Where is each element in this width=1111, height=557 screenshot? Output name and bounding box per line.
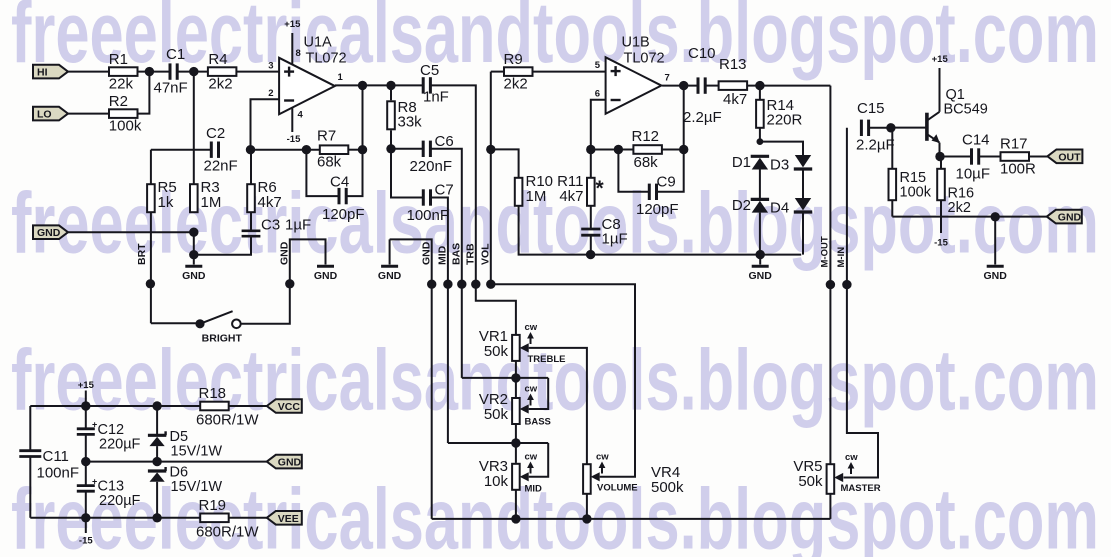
diode D1 bbox=[732, 154, 769, 171]
svg-text:TL072: TL072 bbox=[306, 51, 347, 67]
wire bbox=[68, 231, 194, 233]
svg-text:+15: +15 bbox=[932, 54, 949, 65]
wire bbox=[193, 232, 195, 264]
capacitor C11 bbox=[19, 448, 79, 482]
svg-text:68k: 68k bbox=[317, 154, 342, 171]
svg-text:VOLUME: VOLUME bbox=[597, 483, 638, 494]
diode D4 bbox=[770, 198, 812, 217]
resistor R7 bbox=[317, 128, 348, 171]
resistor R16 bbox=[937, 157, 974, 234]
svg-text:M-OUT: M-OUT bbox=[820, 236, 831, 267]
svg-text:220R: 220R bbox=[767, 112, 803, 129]
wire bbox=[68, 71, 109, 73]
svg-text:5: 5 bbox=[595, 60, 601, 71]
wire bbox=[683, 86, 685, 150]
svg-text:7: 7 bbox=[665, 72, 670, 83]
connector GND power bbox=[267, 455, 302, 469]
node M-OUT bbox=[826, 280, 835, 289]
svg-text:2k2: 2k2 bbox=[208, 76, 232, 93]
svg-text:GND: GND bbox=[984, 270, 1008, 282]
svg-text:4k7: 4k7 bbox=[723, 91, 747, 108]
wire bbox=[29, 406, 31, 450]
svg-text:6: 6 bbox=[595, 89, 600, 100]
ground bbox=[317, 265, 334, 268]
node mid D5 bbox=[152, 457, 161, 466]
node BRT bbox=[146, 279, 155, 288]
wire VR1 wiper to VR4 bbox=[529, 348, 587, 465]
svg-text:120pF: 120pF bbox=[636, 201, 679, 218]
svg-text:GND: GND bbox=[421, 241, 433, 265]
svg-text:2.2µF: 2.2µF bbox=[683, 109, 722, 126]
wire bbox=[747, 85, 830, 87]
node inverting U1A bbox=[246, 145, 255, 154]
node VR2 bottom bbox=[511, 438, 520, 447]
svg-text:15V/1W: 15V/1W bbox=[171, 444, 223, 460]
resistor R8 bbox=[387, 85, 422, 148]
wire bbox=[30, 405, 200, 407]
node switch gnd line bbox=[285, 279, 294, 288]
svg-text:33k: 33k bbox=[398, 114, 423, 131]
ground bbox=[185, 265, 202, 268]
wire bbox=[241, 239, 326, 323]
svg-text:C9: C9 bbox=[657, 174, 676, 191]
svg-text:500k: 500k bbox=[651, 479, 684, 496]
svg-text:C2: C2 bbox=[206, 125, 225, 142]
wire gnd mid rail bbox=[86, 461, 267, 463]
svg-text:50k: 50k bbox=[484, 343, 509, 360]
node R14 top bbox=[755, 81, 764, 90]
node +15 rail D5 bbox=[152, 401, 161, 410]
svg-text:cw: cw bbox=[845, 452, 858, 463]
svg-text:LO: LO bbox=[37, 109, 52, 121]
svg-text:R19: R19 bbox=[199, 497, 227, 514]
svg-text:2k2: 2k2 bbox=[504, 76, 528, 93]
switch BRIGHT bbox=[195, 311, 242, 344]
svg-text:10k: 10k bbox=[484, 473, 509, 490]
wire bbox=[156, 482, 158, 518]
wire bbox=[829, 494, 831, 519]
node C9 left bbox=[614, 145, 623, 154]
resistor R19 bbox=[196, 497, 259, 541]
capacitor C5 bbox=[420, 62, 449, 105]
svg-text:MASTER: MASTER bbox=[841, 483, 881, 494]
node VOL bbox=[486, 280, 495, 289]
wire VR2 wiper bbox=[529, 378, 549, 409]
svg-text:R4: R4 bbox=[208, 51, 227, 68]
zener D5 bbox=[148, 406, 222, 460]
svg-text:MID: MID bbox=[525, 484, 543, 495]
node R8 top bbox=[386, 81, 395, 90]
svg-text:R9: R9 bbox=[504, 51, 523, 68]
wire bbox=[236, 71, 279, 73]
wire bbox=[462, 377, 548, 379]
wire bbox=[661, 149, 683, 151]
wire bbox=[229, 517, 267, 519]
capacitor C10 bbox=[683, 45, 722, 126]
node -15 rail C13 bbox=[81, 513, 90, 522]
wire bbox=[802, 212, 804, 255]
node R12 right bbox=[679, 145, 688, 154]
potentiometer VR4 bbox=[583, 452, 684, 497]
resistor R9 bbox=[504, 51, 533, 93]
svg-text:GND: GND bbox=[378, 270, 402, 282]
capacitor C13 bbox=[77, 462, 141, 518]
svg-text:OUT: OUT bbox=[1058, 151, 1081, 163]
ground bbox=[749, 255, 773, 283]
resistor R18 bbox=[196, 385, 259, 429]
wire MID feed bbox=[432, 198, 448, 444]
potentiometer VR1 bbox=[479, 322, 566, 365]
wire VR3 wiper bbox=[529, 443, 549, 477]
svg-text:GND: GND bbox=[37, 227, 61, 239]
svg-text:MID: MID bbox=[437, 245, 449, 265]
resistor R11 bbox=[557, 150, 604, 229]
node Q1 base bbox=[886, 123, 895, 132]
node VOL R10 branch bbox=[486, 145, 495, 154]
resistor R15 bbox=[889, 128, 932, 217]
op-amp U1B bbox=[595, 35, 670, 114]
wire bbox=[156, 446, 158, 462]
svg-text:1k: 1k bbox=[158, 194, 174, 211]
svg-text:D4: D4 bbox=[770, 200, 789, 217]
resistor R10 bbox=[515, 173, 553, 206]
svg-text:50k: 50k bbox=[798, 473, 823, 490]
wire bbox=[335, 84, 422, 86]
zener D6 bbox=[148, 465, 222, 496]
svg-text:68k: 68k bbox=[634, 154, 659, 171]
capacitor C14 bbox=[956, 132, 991, 183]
svg-text:10µF: 10µF bbox=[956, 166, 991, 183]
svg-text:47nF: 47nF bbox=[154, 80, 188, 97]
capacitor C4 bbox=[306, 150, 364, 223]
svg-text:1M: 1M bbox=[526, 188, 547, 205]
wire bbox=[759, 170, 761, 201]
svg-text:HI: HI bbox=[37, 67, 48, 79]
node mid C12 bbox=[81, 457, 90, 466]
wire bbox=[760, 142, 803, 155]
svg-text:C6: C6 bbox=[435, 133, 454, 150]
svg-text:BAS: BAS bbox=[451, 243, 463, 265]
wire bbox=[391, 149, 422, 198]
wire bbox=[519, 206, 802, 255]
svg-text:4k7: 4k7 bbox=[258, 194, 282, 211]
wire bbox=[940, 156, 971, 158]
wire bbox=[448, 442, 548, 444]
wire bbox=[150, 150, 152, 185]
svg-text:GND: GND bbox=[279, 241, 291, 265]
svg-text:TREBLE: TREBLE bbox=[528, 354, 566, 365]
wire bbox=[892, 216, 1048, 218]
svg-text:*: * bbox=[596, 177, 605, 200]
wire bbox=[980, 156, 1001, 158]
wire pot ground rail bbox=[432, 518, 831, 520]
svg-text:22k: 22k bbox=[109, 76, 134, 93]
svg-text:BRT: BRT bbox=[136, 243, 148, 265]
wire bbox=[194, 237, 251, 255]
svg-text:GND: GND bbox=[314, 270, 338, 282]
svg-text:+15: +15 bbox=[78, 380, 95, 391]
svg-text:1: 1 bbox=[338, 72, 344, 83]
node VR1 bottom bbox=[511, 373, 520, 382]
svg-text:680R/1W: 680R/1W bbox=[196, 524, 259, 541]
wire bbox=[590, 236, 592, 255]
svg-text:R18: R18 bbox=[199, 385, 227, 402]
wire VR4 wiper to VOL bbox=[491, 284, 635, 477]
node +15 rail C12 bbox=[81, 401, 90, 410]
svg-text:BC549: BC549 bbox=[944, 102, 988, 118]
node R3 bottom bbox=[189, 228, 198, 237]
node VR4 bottom bbox=[582, 514, 591, 523]
wire BAS feed bbox=[431, 149, 461, 378]
svg-text:C5: C5 bbox=[420, 62, 439, 79]
op-amp U1A bbox=[268, 35, 346, 121]
svg-text:+: + bbox=[92, 477, 97, 487]
svg-text:C10: C10 bbox=[688, 45, 716, 62]
svg-text:1µF: 1µF bbox=[285, 217, 311, 234]
wire bbox=[891, 127, 926, 129]
svg-text:C15: C15 bbox=[857, 100, 885, 117]
-15 supply bbox=[79, 518, 93, 547]
wire bbox=[151, 149, 211, 151]
svg-text:VEE: VEE bbox=[278, 513, 299, 525]
svg-text:220µF: 220µF bbox=[99, 493, 141, 509]
wire GND bus bbox=[390, 239, 432, 519]
svg-text:C1: C1 bbox=[166, 46, 185, 63]
wire bbox=[491, 71, 504, 73]
svg-text:100k: 100k bbox=[900, 185, 932, 201]
svg-text:1nF: 1nF bbox=[423, 89, 449, 106]
wire bbox=[706, 85, 719, 87]
wire bbox=[591, 100, 606, 150]
svg-text:15V/1W: 15V/1W bbox=[171, 479, 223, 495]
svg-text:R12: R12 bbox=[632, 128, 660, 145]
svg-text:R13: R13 bbox=[719, 56, 747, 73]
potentiometer VR2 bbox=[479, 384, 551, 428]
ground bbox=[378, 239, 402, 282]
capacitor C6 bbox=[410, 133, 454, 175]
resistor R1 bbox=[109, 51, 138, 93]
node TRB bbox=[471, 280, 480, 289]
wire bbox=[251, 99, 280, 150]
wire BRT bbox=[150, 212, 152, 323]
svg-text:C7: C7 bbox=[435, 182, 454, 199]
connector VEE bbox=[267, 511, 302, 525]
resistor R13 bbox=[719, 56, 748, 108]
diode D3 bbox=[770, 155, 812, 174]
wire M-IN bbox=[844, 128, 879, 478]
node C8 bottom bbox=[586, 250, 595, 259]
svg-text:100nF: 100nF bbox=[407, 207, 450, 224]
wire bbox=[391, 148, 422, 150]
node VR3 bottom bbox=[511, 514, 520, 523]
svg-text:cw: cw bbox=[525, 384, 538, 395]
capacitor C8 bbox=[581, 216, 627, 248]
wire bbox=[491, 149, 519, 177]
node MID bbox=[443, 280, 452, 289]
svg-text:8: 8 bbox=[296, 48, 301, 59]
svg-text:1M: 1M bbox=[201, 194, 222, 211]
svg-text:C14: C14 bbox=[962, 132, 990, 149]
svg-text:2.2µF: 2.2µF bbox=[856, 137, 895, 154]
wire bbox=[869, 127, 891, 129]
node BAS bbox=[457, 280, 466, 289]
resistor R4 bbox=[208, 51, 237, 93]
node R7 left bbox=[302, 145, 311, 154]
svg-text:GND: GND bbox=[278, 457, 302, 469]
node after C1 bbox=[189, 67, 198, 76]
svg-text:cw: cw bbox=[525, 322, 538, 333]
svg-text:C3: C3 bbox=[261, 217, 280, 234]
svg-text:-15: -15 bbox=[934, 238, 948, 249]
ground bbox=[984, 217, 1008, 282]
svg-text:VOL: VOL bbox=[480, 243, 492, 265]
node C3 return bbox=[189, 250, 198, 259]
node U1A out bbox=[358, 81, 367, 90]
resistor R12 bbox=[632, 128, 662, 171]
resistor R3 bbox=[190, 179, 221, 212]
svg-text:M-IN: M-IN bbox=[836, 247, 847, 268]
wire bbox=[515, 424, 517, 463]
+15 supply bbox=[78, 380, 95, 406]
svg-text:GND: GND bbox=[749, 270, 773, 282]
resistor R2 bbox=[109, 93, 142, 135]
svg-text:VCC: VCC bbox=[278, 401, 301, 413]
svg-text:D2: D2 bbox=[732, 197, 751, 214]
connector LO bbox=[33, 107, 68, 121]
svg-text:100k: 100k bbox=[109, 118, 142, 135]
wire bbox=[30, 517, 200, 519]
node diode top bbox=[757, 138, 764, 145]
wire bbox=[251, 149, 321, 151]
svg-text:4: 4 bbox=[298, 109, 304, 120]
wire bbox=[591, 149, 634, 151]
svg-text:50k: 50k bbox=[484, 406, 509, 423]
svg-text:R7: R7 bbox=[317, 128, 336, 145]
potentiometer VR3 bbox=[479, 452, 542, 495]
wire TRB feed bbox=[431, 85, 516, 335]
wire bbox=[362, 85, 364, 149]
wire bbox=[802, 169, 804, 198]
svg-text:cw: cw bbox=[525, 452, 538, 463]
capacitor C15 bbox=[856, 100, 895, 154]
connector HI bbox=[33, 65, 68, 79]
wire bbox=[1029, 156, 1048, 158]
svg-text:cw: cw bbox=[596, 452, 609, 463]
svg-text:4k7: 4k7 bbox=[559, 188, 583, 205]
wire bbox=[939, 143, 941, 157]
connector VCC bbox=[267, 399, 302, 413]
node GND bus bbox=[427, 280, 436, 289]
svg-text:220nF: 220nF bbox=[410, 158, 453, 175]
wire bbox=[662, 85, 697, 87]
svg-text:3: 3 bbox=[268, 60, 273, 71]
wire bbox=[515, 490, 517, 519]
Q1 +15 supply bbox=[932, 54, 949, 112]
connector OUT bbox=[1047, 150, 1082, 164]
svg-text:2k2: 2k2 bbox=[948, 200, 971, 216]
wire bbox=[29, 457, 31, 518]
wire bbox=[177, 71, 208, 73]
wire bbox=[193, 72, 195, 185]
wire bbox=[515, 361, 517, 398]
svg-text:TRB: TRB bbox=[465, 243, 477, 265]
resistor R17 bbox=[1000, 136, 1036, 178]
wire bbox=[348, 149, 363, 151]
svg-text:-15: -15 bbox=[287, 134, 301, 145]
svg-text:C11: C11 bbox=[43, 448, 69, 465]
U1A -15 supply bbox=[287, 108, 301, 146]
capacitor C1 bbox=[154, 46, 188, 97]
wire bbox=[138, 72, 150, 114]
capacitor C12 bbox=[77, 406, 141, 462]
node M-IN bbox=[842, 280, 851, 289]
node gnd mid bbox=[756, 250, 765, 259]
node after R1 bbox=[145, 67, 154, 76]
svg-text:+15: +15 bbox=[284, 19, 301, 30]
wire M-OUT bbox=[829, 86, 831, 465]
node U1B out bbox=[679, 81, 688, 90]
svg-text:680R/1W: 680R/1W bbox=[196, 412, 259, 429]
svg-text:C4: C4 bbox=[330, 174, 349, 191]
svg-text:2: 2 bbox=[268, 88, 273, 99]
capacitor C7 bbox=[407, 182, 454, 225]
svg-text:U1A: U1A bbox=[304, 35, 333, 51]
svg-text:22nF: 22nF bbox=[204, 158, 238, 175]
capacitor C3 bbox=[242, 217, 312, 237]
wire bbox=[533, 71, 606, 73]
svg-text:R1: R1 bbox=[109, 51, 128, 68]
resistor R6 bbox=[247, 150, 281, 230]
wire bbox=[586, 494, 588, 519]
node R7 right bbox=[358, 145, 367, 154]
svg-text:+: + bbox=[92, 420, 97, 430]
wire bbox=[151, 322, 196, 324]
svg-text:freeelectricalsandtools.blogsp: freeelectricalsandtools.blogspot.com bbox=[11, 0, 1099, 81]
svg-text:-15: -15 bbox=[79, 536, 93, 547]
wire bbox=[68, 113, 109, 115]
U1A +15 supply bbox=[284, 19, 301, 65]
svg-text:R17: R17 bbox=[1000, 136, 1028, 153]
node emitter bbox=[935, 152, 944, 161]
node U1B inv bbox=[586, 145, 595, 154]
node -15 rail D6 bbox=[152, 513, 161, 522]
connector GND right bbox=[1047, 210, 1082, 224]
diode D2 bbox=[732, 197, 769, 214]
resistor R14 bbox=[756, 86, 802, 142]
svg-text:D1: D1 bbox=[732, 154, 751, 171]
svg-text:100nF: 100nF bbox=[37, 465, 80, 482]
connector GND input bbox=[33, 225, 68, 239]
resistor R5 bbox=[147, 179, 177, 212]
svg-text:R2: R2 bbox=[109, 93, 128, 110]
svg-text:BRIGHT: BRIGHT bbox=[202, 333, 243, 345]
svg-text:220µF: 220µF bbox=[99, 437, 141, 453]
svg-text:BASS: BASS bbox=[525, 417, 551, 428]
wire VOL line bbox=[490, 72, 492, 285]
transistor Q1 bbox=[927, 87, 988, 143]
capacitor C9 bbox=[618, 150, 683, 219]
svg-text:GND: GND bbox=[182, 270, 206, 282]
svg-text:TL072: TL072 bbox=[624, 51, 665, 67]
wire bbox=[229, 405, 267, 407]
svg-text:1µF: 1µF bbox=[602, 231, 628, 248]
node R8 bottom bbox=[386, 144, 395, 153]
svg-text:120pF: 120pF bbox=[322, 206, 365, 223]
capacitor C2 bbox=[204, 125, 238, 175]
potentiometer VR5 bbox=[793, 452, 880, 494]
svg-text:100R: 100R bbox=[1000, 161, 1036, 178]
wire bbox=[759, 213, 761, 255]
